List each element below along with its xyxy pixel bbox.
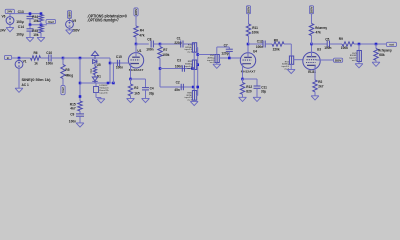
wire volume top xyxy=(216,47,218,55)
svg-text:U4: U4 xyxy=(253,50,257,54)
wire U1 anode xyxy=(135,44,137,57)
svg-text:33µ: 33µ xyxy=(261,90,267,94)
svg-text:100k: 100k xyxy=(162,53,169,57)
wire grid rail xyxy=(63,57,110,59)
node out label xyxy=(387,42,397,46)
svg-text:C2: C2 xyxy=(176,81,180,85)
svg-text:R9: R9 xyxy=(339,37,343,41)
svg-text:1k: 1k xyxy=(34,61,38,65)
svg-text:100µ: 100µ xyxy=(16,20,24,24)
svg-text:47k: 47k xyxy=(139,33,145,37)
wire to out label xyxy=(354,43,386,45)
node 280V screen label xyxy=(334,58,343,62)
wire treble wiper xyxy=(196,47,198,49)
capacitor C4 bypass xyxy=(131,78,146,80)
svg-text:R44: R44 xyxy=(32,15,38,19)
ground below C9 xyxy=(76,123,84,127)
wire master wiper to EL84 grid xyxy=(293,59,304,61)
svg-text:280V: 280V xyxy=(335,59,342,63)
wire EL84 cathode xyxy=(314,65,316,80)
pot RV1 volume xyxy=(215,55,219,63)
svg-text:280V: 280V xyxy=(134,8,138,15)
svg-text:100n: 100n xyxy=(256,45,263,49)
svg-text:R4: R4 xyxy=(140,28,144,32)
svg-text:w=.5: w=.5 xyxy=(187,68,192,70)
svg-text:100n: 100n xyxy=(46,61,53,65)
svg-text:45n: 45n xyxy=(174,88,180,92)
ground below master pot xyxy=(290,64,292,69)
node Vref divider mid xyxy=(29,12,32,15)
node treble feed xyxy=(159,43,162,46)
svg-text:R7: R7 xyxy=(163,48,167,52)
wire U4 anode xyxy=(247,44,249,58)
svg-text:820: 820 xyxy=(246,89,252,93)
svg-text:24V: 24V xyxy=(7,10,12,14)
resistor R12 820 xyxy=(242,79,244,83)
wire left drop to bias rail xyxy=(79,58,81,101)
svg-text:R11: R11 xyxy=(252,26,258,30)
bias supply V6 24V xyxy=(5,9,14,13)
ground below model box xyxy=(95,93,97,98)
supply V9 280V xyxy=(67,11,71,19)
wire to master pot xyxy=(284,43,291,45)
svg-text:Rdummy: Rdummy xyxy=(315,26,327,30)
svg-text:V1: V1 xyxy=(23,60,27,64)
wire tone bus xyxy=(197,48,199,96)
wire U4 cathode xyxy=(242,63,244,79)
plate supply label 280V output xyxy=(309,6,313,14)
coil of clamp xyxy=(94,64,96,67)
wire 24V rail xyxy=(10,13,41,15)
source V1 input signal xyxy=(4,55,11,59)
wire bass wiper xyxy=(196,64,198,66)
node Vref label xyxy=(46,20,56,24)
wire mid wiper xyxy=(196,95,198,97)
svg-text:10k: 10k xyxy=(33,33,39,37)
svg-text:C13: C13 xyxy=(18,10,24,14)
svg-text:R2: R2 xyxy=(134,86,138,90)
resistor R4 47k xyxy=(135,16,137,26)
resistor R2 cathode EL84 xyxy=(313,80,317,92)
resistor R7 slope xyxy=(159,44,161,47)
resistor R11 100k xyxy=(248,14,250,24)
resistor R15 Vref filter xyxy=(78,101,82,111)
pot RV2 master xyxy=(289,56,293,64)
wire U1 cathode xyxy=(130,63,132,79)
wire stage1 plate rail xyxy=(136,43,149,45)
pot RT1 treble xyxy=(192,43,196,53)
svg-text:U3: U3 xyxy=(317,47,321,51)
wire stage2 plate rail xyxy=(248,43,263,45)
svg-text:68k: 68k xyxy=(379,53,385,57)
svg-text:SINE(0 50m 1k): SINE(0 50m 1k) xyxy=(22,78,51,82)
svg-text:C3: C3 xyxy=(177,59,181,63)
model box below clamp xyxy=(95,83,97,87)
svg-text:47k: 47k xyxy=(316,31,322,35)
ground below V6 xyxy=(9,24,11,27)
svg-text:280V: 280V xyxy=(247,6,251,13)
svg-text:V6: V6 xyxy=(2,15,6,19)
svg-text:out: out xyxy=(389,43,394,47)
resistor R5 grid leak xyxy=(62,58,64,65)
node Vref label at R5 xyxy=(62,79,64,86)
wire mid rail xyxy=(160,86,194,88)
pot RV3 presence xyxy=(358,44,360,51)
capacitor C11 bypass xyxy=(243,78,258,80)
svg-text:NE2: NE2 xyxy=(90,68,93,73)
wire right drop xyxy=(109,58,111,83)
svg-text:C12: C12 xyxy=(257,40,263,44)
svg-text:V9: V9 xyxy=(72,19,76,23)
resistor R2 cathode xyxy=(130,79,132,84)
wire volume wiper to U4 grid xyxy=(219,57,241,59)
svg-text:w=.5: w=.5 xyxy=(187,52,192,54)
pot RB1 bass xyxy=(192,60,196,70)
svg-text:U5: U5 xyxy=(97,63,101,67)
wire EL84 screen to 280V xyxy=(316,59,334,61)
svg-text:C15: C15 xyxy=(116,55,122,59)
svg-text:100n: 100n xyxy=(146,47,153,51)
svg-text:U1: U1 xyxy=(137,49,141,53)
node grid1 junction xyxy=(62,57,65,60)
wire aux drop xyxy=(112,63,114,83)
pot RM1 mid xyxy=(192,91,196,101)
svg-text:100n: 100n xyxy=(175,64,182,68)
svg-text:AC 1: AC 1 xyxy=(22,83,29,87)
svg-text:Rchipamp: Rchipamp xyxy=(378,49,391,53)
svg-text:4Meg: 4Meg xyxy=(65,73,73,77)
svg-text:100k: 100k xyxy=(252,30,259,34)
svg-text:280V: 280V xyxy=(68,11,72,18)
svg-text:10k: 10k xyxy=(33,19,39,23)
svg-text:R5: R5 xyxy=(65,68,69,72)
resistor Rdummy 47k xyxy=(311,14,313,24)
svg-text:Cjo=1n5: Cjo=1n5 xyxy=(99,92,108,94)
svg-text:C14: C14 xyxy=(18,25,24,29)
wire bottom rail of clamp xyxy=(80,82,113,84)
grounds of divider xyxy=(29,36,31,39)
svg-text:NH12AX7: NH12AX7 xyxy=(241,70,256,74)
wire volume feed xyxy=(198,54,217,56)
svg-text:NH12AX7: NH12AX7 xyxy=(129,68,144,72)
svg-text:w=.5: w=.5 xyxy=(352,60,357,62)
wire pot connector xyxy=(193,52,195,60)
clamp U5 xyxy=(94,58,96,59)
plate supply label 280V stage2 xyxy=(246,6,250,14)
wire U1 grid jog xyxy=(110,62,129,64)
svg-text:33µ: 33µ xyxy=(149,92,155,96)
wire EL84 anode xyxy=(311,44,313,57)
ground below presence pot xyxy=(358,62,360,64)
svg-text:220k: 220k xyxy=(273,48,280,52)
wire output rail xyxy=(312,43,328,45)
svg-text:4k7: 4k7 xyxy=(70,107,76,111)
svg-text:100µ: 100µ xyxy=(16,33,24,37)
svg-text:2k7: 2k7 xyxy=(318,84,324,88)
svg-text:100k: 100k xyxy=(341,46,348,50)
wire bass rail xyxy=(160,68,192,70)
svg-text:280V: 280V xyxy=(310,6,314,13)
ground below volume pot xyxy=(216,63,218,65)
svg-text:C4: C4 xyxy=(150,86,154,90)
svg-text:R8: R8 xyxy=(274,38,278,42)
svg-text:24V: 24V xyxy=(0,28,7,32)
svg-text:Vref: Vref xyxy=(61,87,65,93)
svg-text:R6: R6 xyxy=(34,51,38,55)
svg-text:120p: 120p xyxy=(221,52,228,56)
wire slope drop xyxy=(159,58,161,87)
svg-text:100n: 100n xyxy=(69,120,76,124)
svg-text:in: in xyxy=(7,56,10,60)
ground below mid pot xyxy=(193,100,195,101)
svg-text:100n: 100n xyxy=(116,66,123,70)
svg-text:100n: 100n xyxy=(324,46,331,50)
ground below V1 xyxy=(18,68,20,88)
svg-text:C9: C9 xyxy=(70,113,74,117)
svg-text:.OPTIONS numdgt=7: .OPTIONS numdgt=7 xyxy=(87,17,119,22)
svg-text:1k5: 1k5 xyxy=(134,92,140,96)
ground below Rchipamp xyxy=(372,62,380,66)
resistor Rchipamp 68k xyxy=(375,44,377,49)
svg-text:Vref: Vref xyxy=(48,20,54,24)
flag above U5 xyxy=(92,51,99,55)
plate supply label 280V stage1 xyxy=(134,8,138,16)
ground below V9 xyxy=(69,28,71,30)
